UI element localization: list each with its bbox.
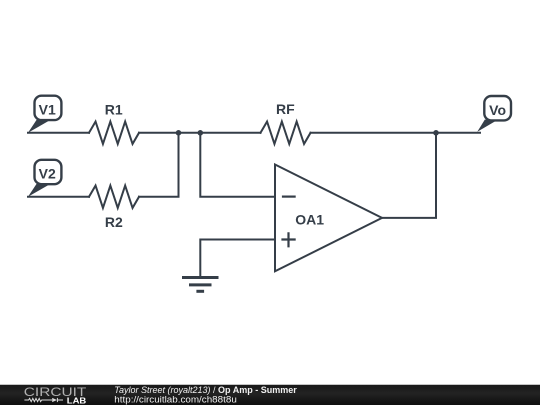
footer title text [114,385,297,395]
svg-text:R1: R1 [105,102,123,118]
svg-text:LAB: LAB [67,396,87,406]
wire RF to Vo [311,132,481,134]
wire node B to op-amp minus input [200,133,275,197]
footer bar [0,384,540,405]
resistor RF [261,101,311,144]
CircuitLab logo resistor-diode symbol [24,398,63,402]
op-amp OA1 [275,165,382,272]
svg-text:R2: R2 [105,214,123,230]
ground [182,278,219,292]
wire R2 up to node A [139,133,179,197]
junction node output [433,130,439,136]
footer url text [114,394,237,404]
wire V2 to R2 [28,196,89,198]
flag V1 [28,96,61,133]
svg-text:OA1: OA1 [295,211,324,227]
flag V2 [28,160,61,197]
svg-text:V2: V2 [39,166,56,182]
flag Vo [477,96,511,132]
wire op-amp output to node [382,133,436,218]
resistor R1 [89,102,139,144]
svg-text:Taylor Street (royalt213) / Op: Taylor Street (royalt213) / Op Amp - Sum… [114,385,297,395]
CircuitLab logo text CIRCUIT [24,385,87,399]
wire V1 to R1 [28,132,89,134]
junction node A [176,130,182,136]
junction node B [198,130,204,136]
resistor R2 [89,186,139,231]
svg-text:http://circuitlab.com/ch88t8u: http://circuitlab.com/ch88t8u [114,394,237,404]
wire R1 to RF [139,132,261,134]
svg-text:RF: RF [276,101,295,117]
wire ground to op-amp plus input [200,240,275,278]
svg-text:V1: V1 [39,102,56,118]
CircuitLab logo text LAB [67,396,87,406]
svg-text:Vo: Vo [489,102,506,118]
